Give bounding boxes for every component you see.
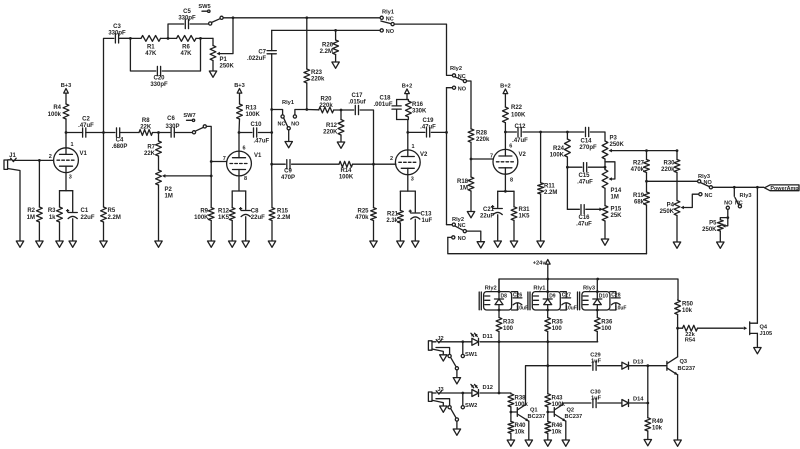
wire Q2 base (548, 411, 555, 413)
svg-text:R5: R5 (108, 208, 116, 214)
capacitor C10 (239, 122, 272, 145)
B+2 supply (V2b) (500, 84, 511, 108)
svg-text:250K: 250K (220, 64, 235, 70)
svg-text:R13: R13 (246, 106, 258, 112)
switch SW1 (436, 348, 477, 378)
svg-text:1uF: 1uF (591, 358, 602, 364)
wire P2 wiper (165, 175, 211, 177)
wire Rly1 common to Rly2 (394, 24, 452, 75)
resistor R38 (508, 394, 529, 408)
wire Rly1 coil feed (546, 279, 549, 311)
svg-text:R1: R1 (147, 45, 155, 51)
wire C3 riser (104, 38, 114, 207)
svg-text:NO: NO (291, 121, 300, 127)
svg-text:8: 8 (244, 176, 247, 182)
svg-text:J105: J105 (760, 331, 773, 337)
svg-text:NC: NC (386, 17, 394, 23)
node D12/R38 (498, 392, 501, 395)
svg-text:100K: 100K (194, 215, 209, 221)
svg-text:22uF: 22uF (81, 215, 95, 221)
wire Q4 drain riser (756, 187, 758, 323)
node R6/P1/C20 (199, 37, 202, 40)
node R35/rail (546, 340, 549, 343)
svg-text:7: 7 (490, 154, 493, 160)
node R24 top (566, 131, 569, 134)
svg-text:R31: R31 (519, 207, 531, 213)
wire V1b cathode (238, 176, 240, 191)
ground (Q4) (754, 348, 761, 354)
LED D11 (471, 333, 493, 345)
svg-text:R8: R8 (142, 118, 150, 124)
wire V1a cathode (65, 173, 67, 191)
svg-text:47K: 47K (180, 51, 192, 57)
wire R38 to R40 (510, 407, 512, 422)
wire Rly1 NO line (272, 29, 380, 31)
svg-text:J1: J1 (9, 153, 16, 159)
node Q2 base (546, 411, 549, 414)
svg-text:330P: 330P (165, 124, 179, 130)
ground (Rly1 mid) (285, 142, 292, 148)
svg-text:R43: R43 (552, 396, 564, 402)
svg-text:C17: C17 (351, 93, 363, 99)
svg-text:330K: 330K (412, 109, 427, 115)
wire Rly2b common ground (466, 231, 480, 242)
node R20/R12/C17 (340, 109, 343, 112)
diode D13 (622, 359, 644, 369)
ground (P15) (601, 239, 608, 245)
resistor R28 (468, 129, 490, 159)
wire R4 bottom (65, 119, 67, 133)
svg-text:330pF: 330pF (108, 31, 126, 37)
triode V2a (390, 144, 428, 183)
resistor R24 (550, 132, 571, 209)
wire D14 out (629, 402, 648, 404)
wire R2 top (38, 160, 40, 207)
svg-text:P15: P15 (611, 207, 622, 213)
svg-text:C20: C20 (153, 76, 165, 82)
node D14/R49 (646, 402, 649, 405)
svg-text:D10: D10 (599, 294, 608, 300)
svg-text:10k: 10k (682, 308, 693, 314)
svg-text:V1: V1 (80, 151, 88, 157)
node V1b anode/R13/C10 (238, 131, 241, 134)
wire Q2 collector (562, 403, 591, 405)
svg-text:220K: 220K (323, 130, 338, 136)
svg-text:Q3: Q3 (680, 359, 688, 365)
wire +24v rail (499, 279, 678, 300)
capacitor C14 (579, 127, 605, 151)
svg-text:100: 100 (601, 326, 612, 332)
potentiometer P1 (210, 38, 234, 71)
svg-text:Rly1: Rly1 (382, 10, 394, 16)
resistor R7 (144, 133, 161, 171)
capacitor C13 (409, 210, 432, 241)
svg-text:R15: R15 (277, 209, 289, 215)
svg-text:25K: 25K (611, 213, 623, 219)
svg-text:Q2: Q2 (567, 408, 575, 414)
svg-text:8: 8 (510, 178, 513, 184)
svg-text:NC: NC (278, 121, 286, 127)
svg-text:C10: C10 (251, 122, 263, 128)
capacitor C30 (590, 390, 622, 408)
svg-text:SW5: SW5 (198, 4, 210, 10)
capacitor C1 (67, 208, 95, 241)
svg-text:P2: P2 (165, 187, 173, 193)
wire C3 to R1 (120, 37, 141, 39)
svg-text:P14: P14 (611, 188, 622, 194)
B+3 supply (V1b) (234, 83, 245, 104)
svg-text:P5: P5 (709, 221, 717, 227)
svg-text:R6: R6 (182, 45, 190, 51)
svg-text:10uF: 10uF (565, 306, 577, 312)
wire riser to R15 (271, 164, 273, 207)
node R28/R18/V2b grid (470, 158, 473, 161)
node V1a anode/R4/C2 (65, 131, 68, 134)
resistor R22 (503, 105, 527, 132)
svg-text:Q1: Q1 (530, 408, 538, 414)
svg-text:22uF: 22uF (251, 215, 265, 221)
node R26 top (334, 29, 337, 32)
wire cathode bracket V2a (400, 191, 415, 212)
diode D8 (495, 294, 508, 305)
resistor R26 (320, 30, 339, 62)
wire Rly3 coil feed (596, 279, 599, 311)
svg-text:Q4: Q4 (760, 325, 768, 331)
resistor R11 (538, 132, 558, 241)
ground (R40) (507, 440, 514, 446)
resistor R27 (631, 151, 650, 182)
relay coil Rly2 (479, 285, 511, 310)
ground (R49) (644, 440, 651, 446)
node C7/Rly1 mid (270, 108, 273, 111)
svg-text:250K: 250K (702, 227, 717, 233)
resistor R20 (307, 97, 341, 113)
node J1/R2 (38, 159, 41, 162)
wire R27 to Rly3 NO (647, 180, 698, 182)
wire J3 tip (439, 392, 472, 394)
svg-text:NC: NC (705, 193, 713, 199)
resistor R2 (27, 207, 43, 222)
svg-text:R3: R3 (48, 208, 56, 214)
wire P3 wiper (612, 150, 677, 152)
svg-text:100K: 100K (339, 175, 354, 181)
wire C12 to C14 (541, 131, 584, 133)
node R24/C15 (566, 166, 569, 169)
svg-text:D11: D11 (483, 334, 493, 340)
ground (Q3) (674, 440, 681, 446)
svg-text:R27: R27 (633, 161, 645, 167)
ground (R31) (510, 241, 517, 247)
resistor R35 (545, 310, 564, 342)
ground (J2) (440, 355, 447, 361)
resistor R5 (101, 207, 121, 222)
ground (R25) (370, 241, 377, 247)
node R50/R54 (676, 327, 679, 330)
node R8/R7/C6 (157, 131, 160, 134)
relay coil Rly1 (528, 285, 560, 310)
ground (C8) (242, 241, 249, 247)
svg-text:7: 7 (223, 156, 226, 162)
wire V2b grid (471, 158, 493, 160)
wire D12 out (480, 392, 499, 394)
svg-text:470k: 470k (631, 167, 645, 173)
transistor Q3 (667, 357, 695, 375)
svg-text:D8: D8 (501, 294, 508, 300)
ground (Q1) (525, 440, 532, 446)
output flag PowerAmp (765, 185, 800, 192)
svg-text:C7: C7 (258, 50, 266, 56)
svg-text:10uF: 10uF (615, 306, 627, 312)
ground (R26) (332, 62, 339, 68)
wire J2 tip (439, 341, 472, 343)
svg-text:R9: R9 (200, 209, 208, 215)
svg-text:R12: R12 (218, 209, 230, 215)
wire Q3 emitter (677, 375, 679, 440)
capacitor C27 (560, 292, 577, 312)
resistor R46 (545, 421, 563, 440)
diode D10 (593, 294, 608, 305)
wire R43 to R46 (547, 407, 549, 422)
resistor R25 (355, 164, 376, 241)
node rail/Rly3 coil (596, 278, 599, 281)
capacitor C28 (610, 292, 627, 312)
relay contact Rly3 (send) (698, 174, 713, 199)
node R27/R19/Rly3 (645, 180, 648, 183)
wire V2a anode (407, 132, 409, 150)
ground (P5) (717, 242, 724, 248)
svg-text:100k: 100k (48, 112, 62, 118)
switch SW7 (183, 113, 206, 134)
svg-text:R33: R33 (503, 320, 515, 326)
svg-text:V2: V2 (519, 152, 527, 158)
svg-text:100K: 100K (246, 112, 261, 118)
resistor R8 (139, 118, 159, 135)
ground (R18) (467, 212, 474, 218)
ground (C1) (69, 241, 76, 247)
svg-text:V1: V1 (254, 153, 262, 159)
svg-text:R49: R49 (652, 419, 664, 425)
switch SW2 (436, 399, 477, 429)
svg-text:.001uF: .001uF (373, 102, 392, 108)
svg-text:SW2: SW2 (465, 403, 477, 409)
B+2 supply (V2a) (402, 84, 413, 100)
svg-text:Rly1: Rly1 (282, 100, 294, 106)
svg-text:220k: 220k (311, 77, 325, 83)
svg-text:R40: R40 (515, 423, 527, 429)
resistor R19 (633, 181, 649, 253)
svg-text:Rly2: Rly2 (450, 66, 462, 72)
ground (R46) (544, 440, 551, 446)
wire Rly2 NO riser (447, 88, 453, 225)
svg-text:22uF: 22uF (480, 214, 494, 220)
wire SW7 to V1b grid (206, 126, 211, 207)
svg-text:C14: C14 (580, 139, 592, 145)
wire C7 riser top (271, 30, 273, 50)
ground (R15) (268, 241, 275, 247)
wire to R38 (499, 392, 511, 395)
ground (SW1) (453, 378, 460, 384)
resistor R3 (48, 207, 63, 222)
wire cathode bracket V1b (232, 191, 246, 210)
svg-text:R28: R28 (476, 131, 488, 137)
svg-text:.015uf: .015uf (348, 100, 366, 106)
capacitor C26 (512, 292, 529, 312)
node P3 wiper/R30 (676, 149, 679, 152)
wire SW1 riser (461, 340, 464, 354)
wire V2a cathode (407, 175, 409, 191)
svg-text:V2: V2 (420, 152, 428, 158)
transistor Q2 (554, 405, 582, 422)
relay contact Rly1 (bright) (380, 10, 395, 36)
resistor R4 (48, 104, 69, 119)
resistor R33 (496, 310, 515, 342)
svg-text:C5: C5 (183, 9, 191, 15)
svg-text:C4: C4 (116, 138, 124, 144)
svg-text:PowerAmp: PowerAmp (770, 186, 799, 192)
svg-text:10k: 10k (552, 430, 563, 436)
capacitor C2 (66, 117, 104, 138)
node R23 top (305, 16, 308, 19)
svg-text:220k: 220k (319, 103, 333, 109)
svg-text:NO: NO (724, 201, 733, 207)
wire P3 to P14 (604, 159, 606, 170)
svg-text:1M: 1M (165, 194, 173, 200)
svg-text:.47uF: .47uF (577, 180, 593, 186)
ground (R12 tone) (337, 142, 344, 148)
svg-text:R14: R14 (340, 168, 352, 174)
capacitor C4 (104, 128, 140, 150)
svg-text:C9: C9 (284, 169, 292, 175)
wire R2 bottom (38, 222, 40, 241)
svg-text:68k: 68k (634, 200, 645, 206)
wire V1b anode (238, 133, 240, 152)
wire V2b cathode (504, 174, 506, 191)
capacitor C9 (281, 160, 339, 181)
svg-text:R12: R12 (326, 123, 338, 129)
svg-text:330pF: 330pF (178, 16, 196, 22)
svg-text:22K: 22K (144, 151, 156, 157)
svg-text:+24v: +24v (533, 261, 547, 267)
switch SW5 (198, 4, 223, 25)
node Rly3b common (733, 186, 736, 189)
node D13/D14 junction (646, 364, 649, 367)
node Q4 drain riser (756, 186, 759, 189)
relay contact Rly3 (mute) (724, 187, 751, 209)
svg-text:P4: P4 (667, 203, 675, 209)
resistor R6 (177, 36, 214, 58)
capacitor C20 (130, 38, 200, 88)
wire Rly3 common to PowerAmp (713, 186, 764, 188)
wire grid V1b (211, 161, 227, 163)
svg-text:C16: C16 (578, 215, 590, 221)
svg-text:R50: R50 (682, 302, 694, 308)
wire R3 bottom (59, 222, 61, 241)
node C3/R1/C20 (129, 37, 132, 40)
resistor R16 (406, 100, 428, 120)
resistor R31 (511, 207, 530, 241)
svg-text:2: 2 (390, 156, 393, 162)
svg-text:1M: 1M (27, 215, 35, 221)
triode V2b (490, 144, 527, 184)
node R23 bottom (305, 108, 308, 111)
wire cathode bracket V1a (60, 191, 73, 212)
svg-text:47K: 47K (145, 51, 157, 57)
jack J1 sleeve ground wire (8, 169, 20, 242)
node P3 wiper/R27 (645, 149, 648, 152)
svg-text:470k: 470k (355, 215, 369, 221)
svg-text:470P: 470P (281, 175, 295, 181)
jack J3 sleeve (432, 400, 443, 406)
svg-text:1k: 1k (49, 215, 56, 221)
svg-text:R18: R18 (457, 179, 469, 185)
ground (C13) (412, 241, 419, 247)
node +24v/rail (546, 278, 549, 281)
wire Q2 emitter (565, 421, 567, 440)
wire Q1 collector (526, 366, 591, 405)
jack J1 input (4, 153, 16, 169)
node Q1 collector crossing (546, 364, 549, 367)
resistor R14 (339, 161, 374, 180)
svg-text:R7: R7 (147, 145, 155, 151)
svg-text:R4: R4 (53, 105, 61, 111)
svg-text:R46: R46 (552, 423, 564, 429)
svg-text:R21: R21 (387, 212, 399, 218)
node R1/R6/C5 (167, 37, 170, 40)
svg-text:R38: R38 (515, 396, 527, 402)
svg-text:220k: 220k (476, 137, 490, 143)
diode D9 (543, 294, 556, 305)
svg-text:1: 1 (412, 144, 415, 150)
svg-text:.680P: .680P (112, 144, 128, 150)
resistor R43 (545, 394, 566, 408)
resistor R54 (678, 325, 744, 343)
svg-text:1: 1 (71, 142, 74, 148)
svg-text:100: 100 (503, 326, 514, 332)
svg-text:3: 3 (69, 175, 72, 181)
transistor Q1 (517, 405, 545, 422)
ground (R5) (100, 241, 107, 247)
ground (C21) (494, 241, 501, 247)
svg-text:.47uF: .47uF (254, 139, 270, 145)
relay contact Rly1 (mid) (272, 100, 307, 142)
svg-text:100: 100 (552, 326, 563, 332)
diode D14 (622, 397, 644, 407)
jack J3 (428, 387, 443, 401)
svg-text:.47uF: .47uF (576, 222, 592, 228)
ground (P2) (155, 241, 162, 247)
svg-text:C1: C1 (81, 208, 89, 214)
wire V2a grid (374, 163, 396, 165)
svg-text:10k: 10k (515, 430, 526, 436)
potentiometer P3 (602, 136, 624, 160)
wire Q3 collector (677, 328, 679, 357)
svg-text:R36: R36 (601, 320, 613, 326)
wire P4 wiper to Rly3 NC (684, 194, 699, 207)
resistor R23 (304, 18, 325, 110)
svg-text:NO: NO (458, 86, 467, 92)
relay coil Rly3 (578, 285, 610, 310)
svg-text:1M: 1M (611, 195, 619, 201)
wire Q1 emitter (528, 421, 530, 440)
svg-text:D13: D13 (633, 359, 643, 365)
svg-text:Rly2: Rly2 (485, 285, 497, 291)
svg-text:10uF: 10uF (517, 306, 529, 312)
capacitor C18 (373, 96, 401, 120)
wire D13-D14 link (647, 366, 649, 418)
svg-text:R19: R19 (633, 193, 645, 199)
svg-text:22K: 22K (140, 125, 152, 131)
svg-text:C28: C28 (611, 293, 620, 299)
